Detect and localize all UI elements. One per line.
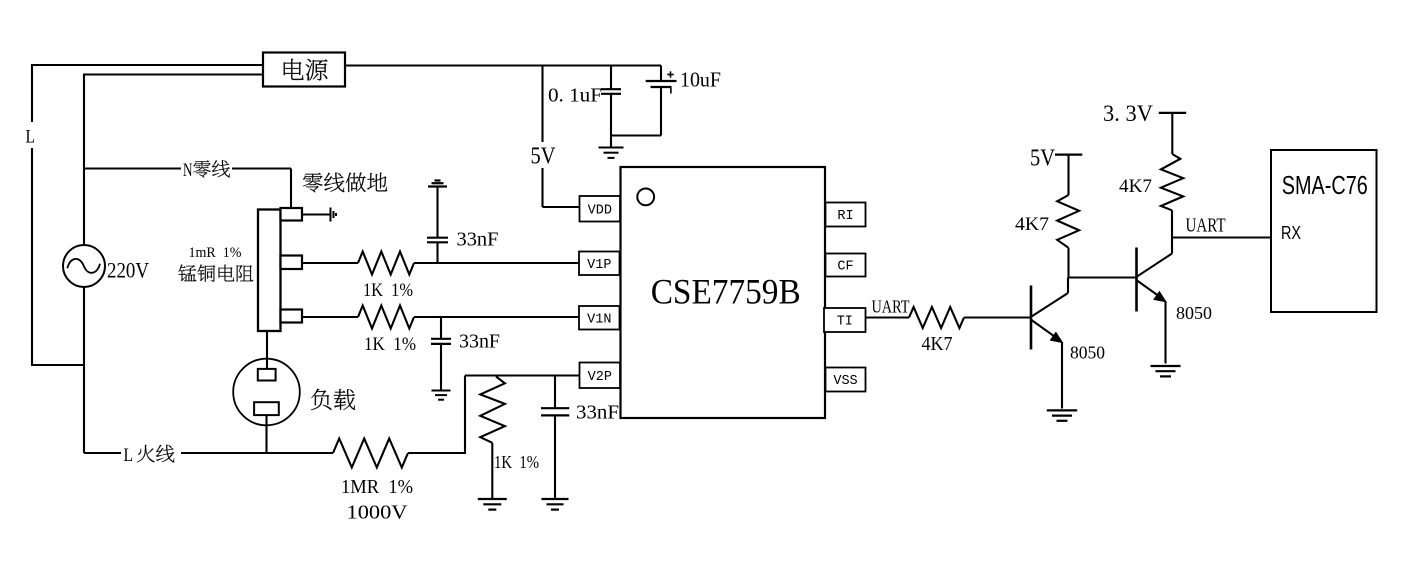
load inner rect lower	[254, 402, 279, 415]
pin RI	[826, 203, 866, 227]
ground below C4	[610, 136, 612, 148]
svg-text:CF: CF	[837, 260, 853, 275]
svg-text:10uF: 10uF	[680, 68, 721, 92]
node L label	[22, 122, 39, 148]
wire tab1 to ground	[302, 213, 330, 215]
svg-text:VSS: VSS	[833, 374, 857, 389]
svg-text:SMA-C76: SMA-C76	[1282, 170, 1368, 200]
wire R7 top to 3.3V	[1171, 113, 1173, 154]
ground below Q2	[1151, 365, 1181, 367]
resistor R3 1K zigzag	[480, 377, 505, 443]
ground above C1 (inverted)	[428, 185, 447, 187]
node 5V label	[527, 142, 559, 168]
svg-text:1000V: 1000V	[347, 502, 409, 524]
capacitor C3 33nF	[541, 407, 569, 409]
ground below C3	[542, 498, 569, 500]
power supply box 电源	[263, 53, 345, 87]
polarity + of C5	[667, 74, 673, 76]
power 5V bar	[1055, 154, 1082, 156]
node N零线 label	[181, 158, 232, 179]
Q2 emitter with arrow	[1137, 281, 1162, 299]
capacitor C5 10uF electrolytic	[646, 80, 677, 82]
capacitor C2 33nF stem	[440, 317, 442, 339]
svg-text:1MR 1%: 1MR 1%	[341, 476, 413, 498]
wire L火线	[84, 452, 333, 454]
svg-text:8050: 8050	[1176, 303, 1212, 323]
wire C3 to ground	[554, 415, 556, 499]
label 锰铜电阻	[179, 264, 254, 281]
pin CF	[826, 254, 866, 277]
wire R5 to Q1 base	[964, 316, 1031, 318]
pin V1N	[579, 306, 620, 330]
wire C1 to ground up	[436, 187, 438, 238]
Q2 collector	[1137, 254, 1172, 277]
wire UART to RX	[1172, 236, 1271, 238]
pin V1P	[579, 252, 620, 276]
svg-text:L: L	[26, 127, 36, 148]
svg-text:V2P: V2P	[588, 370, 612, 385]
svg-text:3. 3V: 3. 3V	[1103, 101, 1153, 126]
shunt tab2	[281, 256, 303, 270]
wire from 电源 right to caps	[345, 64, 661, 66]
wire R3 to ground	[491, 443, 493, 499]
wire tab2 to R1	[302, 262, 358, 264]
shunt tab3	[281, 310, 303, 323]
wire N零线 horizontal	[84, 167, 291, 169]
svg-text:33nF: 33nF	[576, 402, 619, 424]
shunt resistor 1mR body	[258, 210, 281, 332]
ground below Q1	[1047, 409, 1077, 411]
power 3.3V bar	[1159, 112, 1186, 114]
svg-text:1mR 1%: 1mR 1%	[189, 245, 242, 261]
svg-text:33nF: 33nF	[459, 331, 500, 353]
transistor Q2 8050 base bar	[1135, 248, 1138, 312]
svg-text:L: L	[124, 445, 134, 466]
IC U1 CSE7759B body	[621, 167, 826, 418]
wire Q2 collector node to R7	[1171, 210, 1173, 237]
wire N to 电源	[84, 73, 263, 75]
svg-text:CSE7759B: CSE7759B	[651, 272, 801, 312]
ground below C2	[432, 390, 451, 392]
capacitor C1 33nF stem down	[436, 243, 438, 263]
ground below R3	[478, 498, 507, 500]
node L火线 label	[121, 442, 181, 463]
capacitor C4 0.1uF stem	[610, 66, 612, 90]
source V1 220V	[63, 245, 105, 287]
transistor Q1 8050 base bar	[1030, 286, 1033, 350]
svg-text:4K7: 4K7	[922, 333, 953, 355]
node junction Q1 collector / R6 / Q2 base	[1068, 276, 1137, 278]
svg-text:TI: TI	[837, 315, 853, 330]
wire V2P horizontal	[465, 374, 580, 376]
capacitor C2 33nF	[431, 338, 451, 340]
svg-text:4K7: 4K7	[1119, 176, 1152, 197]
wire 1MR to corner	[408, 452, 465, 454]
svg-text:RX: RX	[1281, 223, 1301, 243]
resistor R1 1K zigzag	[358, 252, 414, 275]
capacitor C3 33nF stem	[554, 376, 556, 409]
module SMA-C76 box	[1271, 150, 1377, 312]
wire Q2 emitter to ground	[1164, 302, 1166, 364]
svg-text:VDD: VDD	[588, 204, 612, 219]
resistor R5 4K7 zigzag	[909, 307, 964, 328]
wire L left vertical	[31, 64, 33, 365]
IC pin-1 mark circle	[637, 189, 654, 206]
wire corner up to V2P net	[464, 376, 466, 455]
pin V2P	[580, 363, 621, 389]
wire 5V from top to VDD	[541, 66, 543, 208]
svg-text:5V: 5V	[1030, 146, 1056, 172]
wire cap bottoms join	[611, 134, 661, 136]
ground (neutral as earth) small	[330, 208, 332, 222]
wire shunt bottom to load	[266, 331, 268, 370]
svg-text:0. 1uF: 0. 1uF	[548, 85, 602, 107]
svg-text:1K 1%: 1K 1%	[494, 452, 539, 472]
capacitor C4 0.1uF	[601, 88, 621, 90]
capacitor C1 33nF	[427, 237, 448, 239]
svg-text:4K7: 4K7	[1015, 214, 1049, 235]
svg-text:UART: UART	[1186, 215, 1226, 237]
svg-text:5V: 5V	[531, 144, 557, 170]
load inner rect upper	[258, 369, 276, 381]
svg-text:1K 1%: 1K 1%	[363, 280, 413, 301]
wire Q1 emitter to ground	[1061, 342, 1063, 409]
wire load bottom	[265, 415, 267, 453]
pin VDD	[580, 196, 621, 222]
wire R1 to V1P	[414, 262, 579, 264]
svg-text:220V: 220V	[107, 258, 149, 283]
resistor R4 1MR zigzag	[333, 439, 408, 468]
wire down to shunt tab1	[290, 169, 292, 210]
capacitor C5 10uF stem	[660, 66, 662, 82]
Q1 collector	[1032, 293, 1069, 317]
svg-text:V1N: V1N	[587, 313, 611, 328]
wire R2 to V1N	[414, 316, 579, 318]
Q1 emitter with arrow	[1032, 320, 1059, 339]
pin TI	[824, 308, 866, 332]
wire L top	[32, 64, 263, 66]
svg-text:33nF: 33nF	[457, 229, 499, 251]
resistor R2 1K zigzag	[358, 306, 414, 329]
wire N vertical	[83, 74, 85, 246]
svg-text:8050: 8050	[1070, 343, 1105, 363]
svg-text:1K 1%: 1K 1%	[364, 334, 416, 355]
resistor R7 4K7 zigzag	[1161, 154, 1183, 210]
wire C5 bottom	[660, 87, 662, 136]
svg-text:UART: UART	[872, 297, 910, 317]
wire R6 top to 5V	[1067, 155, 1069, 195]
svg-text:RI: RI	[837, 209, 853, 224]
load circle 负载	[233, 359, 300, 426]
wire tab3 to R2	[302, 316, 358, 318]
wire L bottom horizontal	[31, 364, 84, 366]
svg-text:N: N	[183, 160, 193, 181]
resistor R6 4K7 zigzag	[1057, 195, 1079, 248]
wire TI to R5	[866, 316, 910, 318]
wire source bottom	[83, 287, 85, 454]
pin VSS	[826, 368, 866, 392]
wire C4 bottom	[610, 94, 612, 136]
wire C2 to ground	[440, 344, 442, 391]
resistor R6 4K7 stem bottom	[1067, 248, 1069, 278]
label 负载	[311, 389, 355, 410]
label 零线做地	[303, 173, 387, 193]
svg-text:V1P: V1P	[587, 258, 611, 273]
shunt tab1	[281, 208, 303, 221]
